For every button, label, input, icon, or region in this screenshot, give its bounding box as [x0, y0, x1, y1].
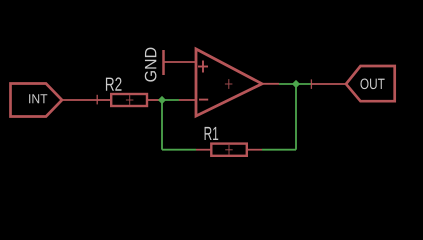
pin-end cross at OUT pin	[310, 79, 312, 89]
wire net R2 to op-amp	[162, 99, 179, 101]
wire net vertical left	[161, 100, 163, 150]
wire net bottom right	[262, 149, 296, 151]
wire OUT port pin	[311, 83, 346, 85]
resistor R1	[196, 127, 262, 156]
ground GND supply	[145, 48, 196, 82]
junction node at inverting input	[158, 96, 166, 104]
resistor R2	[97, 77, 162, 106]
port INT	[11, 84, 63, 117]
wire INT pin	[62, 99, 97, 101]
junction node at output	[292, 80, 300, 88]
op-amp inverting input pin stub	[179, 99, 196, 101]
wire net vertical right	[295, 84, 297, 150]
op-amp U1	[196, 49, 279, 116]
wire net bottom left	[162, 149, 196, 151]
port OUT	[346, 66, 395, 101]
pin-end cross at INT/R2 junction	[96, 95, 98, 105]
wire output net	[279, 83, 311, 85]
